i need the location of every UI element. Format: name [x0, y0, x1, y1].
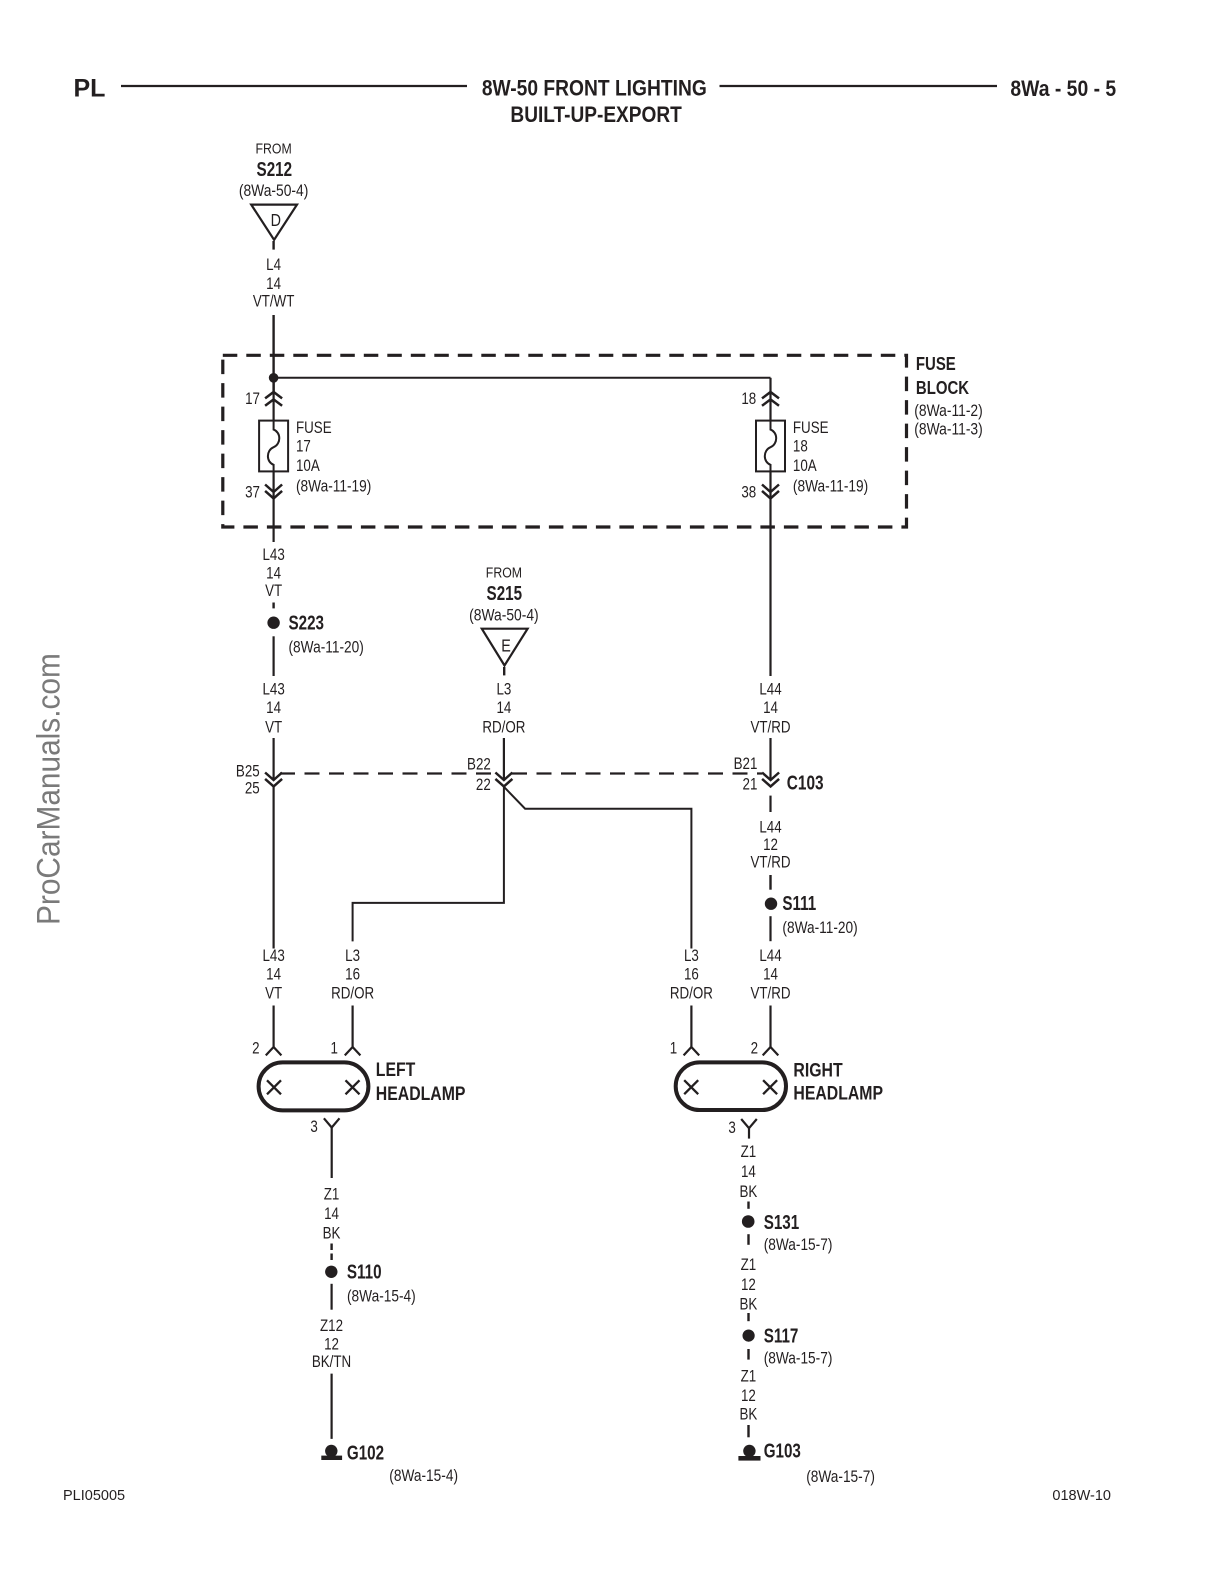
- svg-text:L44: L44: [759, 948, 781, 965]
- left headlamp lamp symbol: [259, 1062, 369, 1110]
- svg-text:37: 37: [245, 484, 260, 501]
- svg-text:(8Wa-11-19): (8Wa-11-19): [793, 477, 868, 495]
- svg-text:14: 14: [266, 700, 281, 717]
- svg-text:HEADLAMP: HEADLAMP: [793, 1082, 883, 1104]
- right headlamp lamp symbol: [676, 1062, 786, 1110]
- wire: [747, 1313, 749, 1321]
- wire: [503, 667, 505, 675]
- splice S110: [325, 1266, 337, 1278]
- svg-text:8Wa - 50 - 5: 8Wa - 50 - 5: [1010, 77, 1116, 101]
- svg-text:VT: VT: [265, 985, 282, 1002]
- wire: [503, 738, 505, 780]
- svg-text:FUSE: FUSE: [793, 420, 829, 437]
- wire L3 branch to right headlamp pin1: [504, 787, 691, 948]
- svg-text:(8Wa-11-20): (8Wa-11-20): [289, 638, 364, 656]
- svg-text:(8Wa-15-7): (8Wa-15-7): [764, 1350, 833, 1368]
- wire: [330, 1244, 332, 1251]
- header rule right: [720, 85, 998, 87]
- svg-text:(8Wa-15-4): (8Wa-15-4): [347, 1287, 416, 1305]
- off-page connector triangle E: [482, 629, 528, 666]
- svg-text:(8Wa-11-3): (8Wa-11-3): [914, 420, 982, 438]
- splice S111: [765, 898, 777, 910]
- svg-text:14: 14: [266, 565, 281, 582]
- wire: [272, 315, 274, 392]
- lamp element X left2: [346, 1080, 360, 1094]
- svg-text:L3: L3: [345, 948, 360, 965]
- svg-text:VT: VT: [265, 583, 282, 600]
- svg-text:12: 12: [763, 837, 778, 854]
- svg-text:FUSE: FUSE: [296, 420, 332, 437]
- wire: [272, 603, 274, 609]
- wire: [769, 738, 771, 780]
- ground G103: [743, 1445, 755, 1457]
- wire: [769, 1006, 771, 1048]
- wire: [331, 1127, 333, 1178]
- svg-text:(8Wa-50-4): (8Wa-50-4): [469, 607, 538, 625]
- svg-text:S131: S131: [764, 1211, 800, 1234]
- wire: [769, 875, 771, 890]
- svg-text:L43: L43: [262, 681, 284, 698]
- wire: [330, 1254, 332, 1261]
- svg-text:17: 17: [296, 438, 311, 455]
- splice S117: [743, 1330, 755, 1342]
- wire: [748, 1128, 750, 1138]
- svg-text:S110: S110: [347, 1261, 382, 1284]
- svg-text:18: 18: [741, 391, 756, 408]
- svg-text:VT/RD: VT/RD: [750, 854, 790, 871]
- svg-text:12: 12: [324, 1337, 339, 1354]
- svg-text:BK: BK: [739, 1407, 757, 1424]
- splice S131: [742, 1215, 755, 1228]
- svg-text:2: 2: [751, 1040, 758, 1057]
- svg-text:S223: S223: [289, 611, 325, 634]
- svg-text:14: 14: [763, 966, 778, 983]
- svg-text:L43: L43: [262, 948, 284, 965]
- svg-text:L4: L4: [266, 257, 281, 274]
- svg-text:(8Wa-15-7): (8Wa-15-7): [806, 1468, 875, 1486]
- svg-text:12: 12: [741, 1277, 756, 1294]
- svg-text:L44: L44: [759, 819, 781, 836]
- svg-text:(8Wa-11-20): (8Wa-11-20): [782, 919, 857, 937]
- svg-text:VT/RD: VT/RD: [750, 985, 790, 1002]
- svg-text:BK: BK: [323, 1225, 341, 1242]
- wire: [273, 738, 275, 780]
- svg-text:8W-50 FRONT LIGHTING: 8W-50 FRONT LIGHTING: [482, 76, 707, 100]
- wire: [273, 636, 275, 676]
- svg-text:B25: B25: [236, 763, 260, 780]
- svg-text:3: 3: [728, 1120, 735, 1137]
- svg-text:1: 1: [670, 1040, 677, 1057]
- svg-text:Z12: Z12: [320, 1318, 343, 1335]
- svg-text:B21: B21: [734, 756, 758, 773]
- svg-text:18: 18: [793, 438, 808, 455]
- fuse F18 10A: [756, 421, 785, 472]
- svg-text:16: 16: [345, 966, 360, 983]
- wire: [769, 471, 771, 676]
- svg-text:(8Wa-15-7): (8Wa-15-7): [764, 1236, 833, 1254]
- svg-text:14: 14: [741, 1164, 756, 1181]
- svg-text:14: 14: [324, 1206, 339, 1223]
- svg-text:ProCarManuals.com: ProCarManuals.com: [30, 653, 66, 925]
- svg-text:BLOCK: BLOCK: [916, 377, 970, 398]
- wire: [747, 1234, 749, 1245]
- wire: [747, 1425, 749, 1437]
- connector C103 dashed line: [280, 772, 496, 774]
- wire: [331, 1284, 333, 1310]
- svg-text:Z1: Z1: [324, 1186, 340, 1203]
- svg-text:22: 22: [476, 777, 491, 794]
- wire: [272, 241, 274, 250]
- svg-text:14: 14: [266, 966, 281, 983]
- svg-text:BUILT-UP-EXPORT: BUILT-UP-EXPORT: [510, 103, 682, 128]
- svg-text:G102: G102: [347, 1441, 384, 1464]
- svg-text:RD/OR: RD/OR: [331, 985, 374, 1002]
- svg-text:018W-10: 018W-10: [1052, 1488, 1111, 1504]
- wire L3 branch to left headlamp pin1: [353, 787, 504, 942]
- ground G102: [325, 1445, 337, 1457]
- svg-text:BK/TN: BK/TN: [312, 1354, 351, 1371]
- svg-text:PLI05005: PLI05005: [63, 1488, 125, 1504]
- splice S223: [267, 617, 279, 629]
- svg-text:HEADLAMP: HEADLAMP: [376, 1082, 466, 1104]
- svg-text:FROM: FROM: [486, 564, 522, 580]
- svg-text:S212: S212: [257, 158, 293, 181]
- svg-text:S117: S117: [764, 1324, 799, 1347]
- svg-text:(8Wa-11-2): (8Wa-11-2): [914, 402, 982, 420]
- wire: [747, 1202, 749, 1209]
- fuse F17 10A: [259, 421, 288, 472]
- svg-text:12: 12: [741, 1388, 756, 1405]
- svg-text:PL: PL: [74, 75, 106, 103]
- svg-text:FROM: FROM: [256, 140, 292, 156]
- svg-text:L44: L44: [759, 681, 781, 698]
- svg-text:S215: S215: [487, 582, 523, 605]
- svg-text:10A: 10A: [296, 458, 320, 475]
- wire: [352, 1006, 354, 1048]
- svg-text:LEFT: LEFT: [376, 1058, 416, 1080]
- svg-text:(8Wa-50-4): (8Wa-50-4): [239, 182, 308, 200]
- svg-text:17: 17: [245, 391, 260, 408]
- svg-text:C103: C103: [787, 772, 824, 794]
- svg-text:Z1: Z1: [741, 1257, 757, 1274]
- wire: [331, 1374, 333, 1439]
- wire: [747, 1349, 749, 1360]
- svg-text:14: 14: [763, 700, 778, 717]
- svg-text:L3: L3: [496, 681, 511, 698]
- wire: [273, 1006, 275, 1048]
- svg-text:RD/OR: RD/OR: [670, 985, 713, 1002]
- svg-text:(8Wa-15-4): (8Wa-15-4): [389, 1467, 458, 1485]
- svg-text:L43: L43: [262, 547, 284, 564]
- node: junction of feed: [269, 373, 279, 383]
- wire: [769, 378, 771, 421]
- svg-text:E: E: [501, 637, 511, 656]
- off-page connector triangle D: [251, 205, 297, 240]
- svg-text:3: 3: [310, 1119, 317, 1136]
- svg-text:14: 14: [496, 700, 511, 717]
- svg-text:Z1: Z1: [741, 1144, 757, 1161]
- header rule left: [121, 85, 467, 87]
- svg-text:10A: 10A: [793, 458, 817, 475]
- svg-text:38: 38: [741, 484, 756, 501]
- svg-text:VT: VT: [265, 719, 282, 736]
- wire L43 to left headlamp pin2: [273, 787, 275, 949]
- svg-text:BK: BK: [739, 1296, 757, 1313]
- svg-text:VT/WT: VT/WT: [253, 294, 295, 311]
- lamp element X left1: [267, 1080, 281, 1094]
- svg-text:B22: B22: [467, 756, 491, 773]
- svg-text:D: D: [271, 212, 281, 231]
- wire: [273, 378, 275, 421]
- lamp element X right1: [684, 1080, 698, 1094]
- svg-text:FUSE: FUSE: [916, 354, 956, 375]
- svg-text:Z1: Z1: [741, 1368, 757, 1385]
- svg-text:2: 2: [252, 1040, 259, 1057]
- svg-text:25: 25: [245, 781, 260, 798]
- wire bus inside fuse block: [274, 377, 771, 379]
- svg-text:16: 16: [684, 966, 699, 983]
- wire: [690, 1006, 692, 1048]
- wire: [273, 471, 275, 542]
- svg-text:21: 21: [743, 777, 758, 794]
- svg-text:14: 14: [266, 276, 281, 293]
- lamp element X right2: [763, 1080, 777, 1094]
- svg-text:RIGHT: RIGHT: [793, 1059, 842, 1081]
- wire L44 below C103: [769, 796, 771, 812]
- svg-text:G103: G103: [764, 1439, 801, 1462]
- svg-text:BK: BK: [739, 1184, 757, 1201]
- wire: [769, 916, 771, 941]
- svg-text:(8Wa-11-19): (8Wa-11-19): [296, 477, 371, 495]
- svg-text:VT/RD: VT/RD: [750, 719, 790, 736]
- svg-text:1: 1: [331, 1040, 338, 1057]
- svg-text:RD/OR: RD/OR: [482, 719, 525, 736]
- svg-text:L3: L3: [684, 948, 699, 965]
- svg-text:S111: S111: [782, 892, 816, 915]
- fuse block dashed outline: [223, 355, 907, 527]
